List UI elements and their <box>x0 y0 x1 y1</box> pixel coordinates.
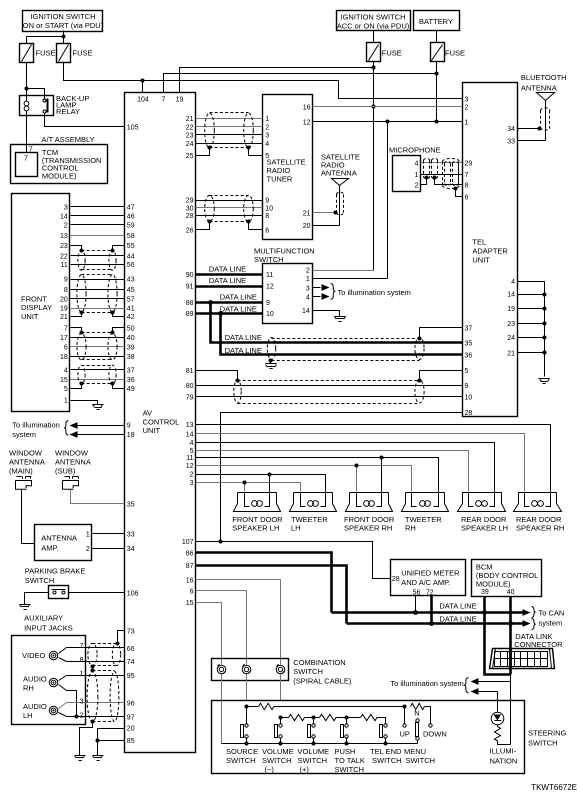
junction <box>208 300 213 305</box>
svg-text:PARKING BRAKE: PARKING BRAKE <box>25 567 86 576</box>
speaker branch verticals <box>245 466 357 493</box>
fuse F4 (BAT) <box>431 43 445 62</box>
wire mic 4 to TEL 29 <box>421 162 463 164</box>
wire FDU 14 to AV 46 <box>71 215 125 217</box>
wire tuner 12 to TEL 1 <box>313 121 463 123</box>
shield FDU group4 <box>78 365 116 384</box>
audio cable shield <box>87 671 119 722</box>
wire FDU 5 to AV 49 (shield drain) <box>71 384 125 389</box>
svg-text:12: 12 <box>266 284 274 291</box>
wire sub antenna to AV 35 <box>71 490 125 504</box>
svg-text:SWITCH: SWITCH <box>335 765 365 774</box>
svg-text:29: 29 <box>186 198 194 205</box>
svg-text:86: 86 <box>186 551 194 558</box>
MULTIFUNCTION SWITCH <box>254 246 315 323</box>
wire AV 15 to combination switch <box>196 603 222 665</box>
svg-text:1: 1 <box>86 532 90 539</box>
wire AV 28 to tuner 8 <box>196 215 263 217</box>
junction <box>141 79 145 83</box>
svg-text:RH: RH <box>405 524 416 533</box>
audio RH jack <box>49 678 58 687</box>
svg-text:106: 106 <box>127 591 139 598</box>
wire AV 79 to TEL 10 <box>196 396 463 398</box>
svg-text:8: 8 <box>265 213 269 220</box>
wire audio RH signal to AV 95 <box>59 676 125 681</box>
svg-text:2: 2 <box>306 268 310 275</box>
shield FDU group2 <box>77 275 117 313</box>
svg-text:AUDIO: AUDIO <box>23 674 47 683</box>
svg-text:36: 36 <box>127 377 135 384</box>
svg-text:28: 28 <box>392 576 400 583</box>
svg-text:1: 1 <box>265 116 269 123</box>
svg-text:1: 1 <box>306 276 310 283</box>
svg-text:SWITCH: SWITCH <box>293 667 323 676</box>
svg-text:7: 7 <box>64 326 68 333</box>
wire mic 2 to shields to TEL 8 <box>421 178 463 185</box>
svg-text:8: 8 <box>64 287 68 294</box>
svg-text:7: 7 <box>465 172 469 179</box>
wire AV 16 to combination switch <box>196 580 281 665</box>
svg-text:2: 2 <box>190 472 194 479</box>
svg-text:ILLUMI-: ILLUMI- <box>490 747 517 756</box>
wire parking brake to ground <box>25 593 49 605</box>
svg-text:36: 36 <box>465 353 473 360</box>
svg-text:87: 87 <box>186 563 194 570</box>
svg-text:25: 25 <box>186 153 194 160</box>
wire AV 14 to speakers <box>196 434 525 493</box>
svg-text:74: 74 <box>127 659 135 666</box>
svg-text:80: 80 <box>186 383 194 390</box>
svg-text:39: 39 <box>127 345 135 352</box>
svg-text:4: 4 <box>190 440 194 447</box>
svg-text:IGNITION SWITCH: IGNITION SWITCH <box>31 12 96 21</box>
svg-text:1: 1 <box>64 398 68 405</box>
wire AV 89 to MFS 10 (DATA LINE) <box>196 312 263 315</box>
svg-text:NATION: NATION <box>490 757 518 766</box>
svg-text:FUSE: FUSE <box>36 49 56 58</box>
wire from ignition switch <box>27 31 64 44</box>
svg-text:34: 34 <box>127 546 135 553</box>
svg-text:9: 9 <box>266 300 270 307</box>
wire AV 23 to tuner 3 <box>196 134 263 136</box>
svg-text:58: 58 <box>127 233 135 240</box>
svg-text:1: 1 <box>80 671 84 678</box>
svg-text:97: 97 <box>127 714 135 721</box>
wire TEL 4,14,19,23,24,21 to ground <box>518 282 545 377</box>
wire AV 85 joins ground <box>98 740 125 742</box>
ground data shield <box>266 364 277 369</box>
svg-text:95: 95 <box>127 673 135 680</box>
svg-text:35: 35 <box>127 501 135 508</box>
svg-text:6: 6 <box>465 194 469 201</box>
wire meter 56 to data line <box>415 596 417 613</box>
volume switch (+) <box>308 724 316 738</box>
SATELLITE RADIO TUNER <box>263 95 313 240</box>
svg-text:39: 39 <box>481 589 489 596</box>
svg-text:23: 23 <box>507 321 515 328</box>
wire main antenna to amp <box>22 490 35 544</box>
svg-text:56: 56 <box>127 262 135 269</box>
svg-text:To illumination: To illumination <box>12 421 60 430</box>
wire parking brake to AV 106 <box>69 592 125 594</box>
shield drain to TEL 5 <box>420 371 463 381</box>
svg-text:UNIFIED METER: UNIFIED METER <box>401 569 460 578</box>
menu rocker switch <box>416 719 420 740</box>
svg-text:SWITCH: SWITCH <box>528 739 558 748</box>
svg-text:3: 3 <box>80 699 84 706</box>
svg-text:IGNITION SWITCH: IGNITION SWITCH <box>341 13 406 22</box>
wire FDU 8 to AV 45 <box>71 289 125 291</box>
svg-text:WINDOW: WINDOW <box>9 449 43 458</box>
wire FDU 6 to AV 39 <box>71 346 125 348</box>
svg-text:35: 35 <box>465 341 473 348</box>
BLUETOOTH ANTENNA <box>521 73 567 141</box>
svg-text:9: 9 <box>127 423 131 430</box>
svg-text:6: 6 <box>64 345 68 352</box>
shield around tuner wires 2 <box>205 195 254 221</box>
UP contact <box>404 707 406 724</box>
svg-text:MODULE): MODULE) <box>42 171 77 180</box>
wire tuner 16 to TEL 2 <box>313 106 463 108</box>
IGNITION SWITCH ON or START box <box>23 11 104 32</box>
svg-text:24: 24 <box>507 335 515 342</box>
junction <box>25 87 29 91</box>
svg-text:4: 4 <box>64 368 68 375</box>
shield FDU group1 <box>78 251 116 271</box>
wire AV 81 to shield <box>196 371 238 381</box>
svg-text:SWITCH: SWITCH <box>262 756 292 765</box>
svg-text:BLUETOOTH: BLUETOOTH <box>521 73 567 82</box>
wire to illumination arrow 2 / bulb <box>478 692 498 712</box>
wire AV 20 to ground <box>98 729 125 756</box>
svg-text:8: 8 <box>80 657 84 664</box>
svg-text:SPEAKER RH: SPEAKER RH <box>344 524 392 533</box>
svg-text:LH: LH <box>23 711 33 720</box>
svg-text:38: 38 <box>127 354 135 361</box>
svg-text:system: system <box>12 430 36 439</box>
svg-text:3: 3 <box>64 205 68 212</box>
wire FDU 15 to AV 36 <box>71 379 125 381</box>
speaker rear door speaker RH <box>514 493 565 533</box>
svg-text:SWITCH: SWITCH <box>254 255 284 264</box>
svg-text:SPEAKER LH: SPEAKER LH <box>232 524 279 533</box>
svg-text:45: 45 <box>127 287 135 294</box>
svg-text:37: 37 <box>465 325 473 332</box>
wire AV pin 7 to battery fuse <box>164 74 437 93</box>
speaker front door speaker LH <box>232 493 283 533</box>
wire AV pin 19 to ACC fuse <box>180 68 374 93</box>
svg-text:DATA LINE: DATA LINE <box>220 304 257 313</box>
DOWN contact <box>429 724 432 727</box>
wire AV 12 to speakers <box>196 466 412 493</box>
svg-text:(+): (+) <box>300 765 310 774</box>
wire AV 80 to TEL 9 <box>196 385 463 387</box>
svg-text:11: 11 <box>61 262 68 269</box>
wires combination switch into steering switch <box>221 675 223 744</box>
svg-text:18: 18 <box>60 354 68 361</box>
wire FDU 7 to AV 50 (shield drain) <box>71 328 125 333</box>
wire FDU 1 to ground <box>71 401 98 405</box>
illumination bulb <box>491 712 504 725</box>
svg-text:73: 73 <box>127 629 135 636</box>
svg-text:90: 90 <box>186 272 194 279</box>
svg-text:RH: RH <box>23 683 34 692</box>
video jack <box>49 651 58 660</box>
shield around tuner wires <box>205 113 254 149</box>
svg-text:To illumination system: To illumination system <box>390 679 463 688</box>
wire audio LH signal to AV 96 <box>59 703 125 709</box>
svg-text:ANTENNA: ANTENNA <box>55 458 91 467</box>
svg-text:CONNECTOR: CONNECTOR <box>514 640 563 649</box>
FRONT DISPLAY UNIT <box>12 194 70 412</box>
svg-text:INPUT JACKS: INPUT JACKS <box>24 624 73 633</box>
wire amp 2 to AV 34 <box>93 548 125 550</box>
audio shield drain to ground <box>80 722 93 756</box>
svg-text:2: 2 <box>465 105 469 112</box>
svg-text:9: 9 <box>64 277 68 284</box>
shield around data lines <box>267 338 424 361</box>
svg-text:ANTENNA: ANTENNA <box>9 458 45 467</box>
spiral cable connector <box>276 664 285 674</box>
svg-text:91: 91 <box>186 284 194 291</box>
svg-text:SWITCH: SWITCH <box>298 756 328 765</box>
svg-text:5: 5 <box>64 386 68 393</box>
wire FDU 2 to AV 59 <box>71 224 125 226</box>
wire FDU 17 to AV 40 <box>71 337 125 339</box>
resistor to DOWN <box>411 703 425 709</box>
svg-text:30: 30 <box>186 205 194 212</box>
svg-text:47: 47 <box>127 205 135 212</box>
svg-text:STEERING: STEERING <box>528 729 567 738</box>
steering bus 2 <box>281 717 289 719</box>
svg-text:FUSE: FUSE <box>445 49 465 58</box>
wire BCM 40 through connector <box>509 649 512 669</box>
svg-text:21: 21 <box>303 211 311 218</box>
speaker tweeter RH <box>402 493 449 533</box>
wire fuse F1 to relay <box>27 63 45 101</box>
svg-text:SWITCH: SWITCH <box>226 756 256 765</box>
STEERING SWITCH box <box>212 701 525 774</box>
svg-text:2: 2 <box>415 183 419 190</box>
wire AV 2 to speakers <box>196 475 326 493</box>
wire AV 11 to speakers <box>196 458 439 493</box>
ground TEL <box>539 379 550 384</box>
svg-text:RELAY: RELAY <box>56 107 80 116</box>
svg-text:system: system <box>539 618 563 627</box>
wire meter 72 to data line <box>430 596 433 624</box>
svg-text:FUSE: FUSE <box>73 49 93 58</box>
svg-text:AUXILIARY: AUXILIARY <box>24 614 63 623</box>
data link connector <box>490 649 555 669</box>
window antenna MAIN symbol <box>16 477 32 490</box>
svg-text:VOLUME: VOLUME <box>298 747 330 756</box>
svg-text:79: 79 <box>186 394 194 401</box>
wire FDU 13 to AV 58 <box>71 235 125 237</box>
speaker front door speaker RH <box>344 493 395 533</box>
svg-text:3: 3 <box>465 97 469 104</box>
wire FDU 21 to AV 42 (shield drain) <box>71 313 125 317</box>
ground MFS <box>335 317 346 322</box>
steering bus 1 <box>247 706 259 708</box>
wire big shield to TEL 6 <box>456 189 463 197</box>
svg-text:20: 20 <box>303 223 311 230</box>
svg-text:1: 1 <box>465 119 469 126</box>
window antenna SUB symbol <box>63 477 79 490</box>
wire TEL 34 to antenna shield <box>518 128 539 130</box>
svg-text:DATA LINE: DATA LINE <box>209 276 246 285</box>
svg-text:14: 14 <box>302 308 310 315</box>
svg-text:CONTROL: CONTROL <box>143 417 180 426</box>
svg-text:40: 40 <box>507 589 515 596</box>
wire MFS 1 to battery feed <box>313 278 388 280</box>
svg-text:VIDEO: VIDEO <box>22 651 46 660</box>
svg-text:16: 16 <box>186 577 194 584</box>
ACC feed vertical to multifunction switch pin 2 <box>373 62 375 271</box>
svg-text:BATTERY: BATTERY <box>419 17 453 26</box>
svg-text:3: 3 <box>265 133 269 140</box>
svg-text:5: 5 <box>465 368 469 375</box>
wire AV 9 to illumination <box>77 425 125 427</box>
svg-text:29: 29 <box>465 160 473 167</box>
svg-text:MODULE): MODULE) <box>476 579 511 588</box>
wire AV 107 branch to TEL 28 <box>221 413 463 542</box>
wire tuner 20 to antenna <box>313 225 340 227</box>
svg-text:42: 42 <box>127 314 135 321</box>
wire AV 3 to speakers <box>196 483 301 493</box>
svg-text:59: 59 <box>127 222 135 229</box>
svg-text:20: 20 <box>127 726 135 733</box>
wire fuse F2 / AV pin 104 to TEL pin 3 <box>64 62 463 99</box>
BCM (BODY CONTROL MODULE) <box>472 560 542 597</box>
svg-text:107: 107 <box>182 539 194 546</box>
wire AV 87 (DATA LINE) <box>196 566 347 624</box>
svg-text:SPEAKER RH: SPEAKER RH <box>516 524 564 533</box>
svg-text:DATA LINE: DATA LINE <box>439 601 476 610</box>
svg-text:DOWN: DOWN <box>423 730 447 739</box>
svg-text:33: 33 <box>127 532 135 539</box>
svg-text:TKWT6672E: TKWT6672E <box>531 783 577 792</box>
wire AV 86 (DATA LINE) <box>196 553 332 613</box>
wire AV 6 to combination switch <box>196 591 247 665</box>
svg-text:SWITCH: SWITCH <box>25 576 55 585</box>
svg-text:4: 4 <box>306 295 310 302</box>
wire BCM 39 (CAN) <box>485 597 511 675</box>
wire audio RH shell down to 97 <box>59 685 77 717</box>
ground aux shield <box>75 756 86 761</box>
svg-text:57: 57 <box>127 297 135 304</box>
wire relay to AV pin 105 <box>45 113 125 127</box>
svg-text:UNIT: UNIT <box>143 426 161 435</box>
back-up lamp relay <box>20 94 90 116</box>
svg-text:N: N <box>414 709 419 718</box>
svg-text:28: 28 <box>186 213 194 220</box>
svg-text:96: 96 <box>127 701 135 708</box>
svg-text:72: 72 <box>426 589 434 596</box>
svg-text:6: 6 <box>265 228 269 235</box>
svg-text:DATA LINE: DATA LINE <box>439 614 476 623</box>
TCM (transmission control module) <box>16 147 102 181</box>
wire AV 21 to tuner 1 <box>196 118 263 120</box>
tel end switch <box>380 724 388 738</box>
BATTERY box <box>414 11 460 31</box>
svg-text:ANTENNA: ANTENNA <box>41 534 77 543</box>
svg-text:11: 11 <box>186 455 193 462</box>
svg-text:4: 4 <box>265 141 269 148</box>
wire AV 24 to tuner 4 <box>196 143 263 145</box>
wire mic 1 to TEL 7 <box>421 174 463 176</box>
svg-text:2: 2 <box>86 546 90 553</box>
wire FDU 9 to AV 43 <box>71 279 125 281</box>
svg-text:(MAIN): (MAIN) <box>9 467 33 476</box>
svg-text:PUSH: PUSH <box>335 747 356 756</box>
svg-text:TO TALK: TO TALK <box>335 756 365 765</box>
svg-text:89: 89 <box>186 311 194 318</box>
svg-text:15: 15 <box>60 377 68 384</box>
svg-text:37: 37 <box>127 368 135 375</box>
svg-text:85: 85 <box>127 738 135 745</box>
svg-text:18: 18 <box>127 432 135 439</box>
svg-text:7: 7 <box>24 156 28 163</box>
COMBINATION SWITCH (SPIRAL CABLE) <box>212 658 352 685</box>
junction <box>62 35 66 39</box>
audio LH jack <box>49 706 58 715</box>
svg-text:MENU: MENU <box>404 747 426 756</box>
svg-text:2: 2 <box>80 712 84 719</box>
wire video signal to AV 66 <box>59 648 125 654</box>
wire AV 30 to tuner 10 <box>196 207 263 209</box>
svg-text:33: 33 <box>507 138 515 145</box>
mic shield capsules <box>424 159 460 189</box>
svg-text:AND A/C AMP.: AND A/C AMP. <box>401 578 450 587</box>
wire AV 22 to tuner 2 <box>196 126 263 128</box>
svg-text:AV: AV <box>143 409 152 418</box>
ANTENNA AMP <box>35 525 92 561</box>
svg-text:44: 44 <box>127 253 135 260</box>
UNIFIED METER AND A/C AMP <box>391 560 466 597</box>
video shield to audio shield link <box>92 666 94 671</box>
spiral cable connector <box>242 664 251 674</box>
svg-text:3: 3 <box>306 285 310 292</box>
svg-text:UNIT: UNIT <box>21 312 39 321</box>
svg-text:9: 9 <box>265 198 269 205</box>
svg-text:A/T ASSEMBLY: A/T ASSEMBLY <box>42 135 95 144</box>
switch feed verticals <box>247 707 347 725</box>
wire BCM 40 (CAN) <box>509 597 512 675</box>
svg-text:49: 49 <box>127 386 135 393</box>
wire video shield to AV 74 <box>59 658 125 662</box>
svg-text:TUNER: TUNER <box>267 175 293 184</box>
shield around 80/79 <box>234 380 424 404</box>
junction <box>218 311 223 316</box>
wire BATTERY to fuse <box>436 31 438 43</box>
svg-text:(SPIRAL CABLE): (SPIRAL CABLE) <box>293 676 352 685</box>
svg-text:24: 24 <box>186 141 194 148</box>
junction <box>386 120 390 124</box>
wire FDU 23 to AV 55 (shield drain) <box>71 246 125 251</box>
wire AV 91 to MFS 12 (DATA LINE) <box>196 285 263 288</box>
DATA LINE AV 89 branch to TEL 36 <box>221 314 463 355</box>
shield FDU group3 <box>77 333 117 360</box>
svg-text:WINDOW: WINDOW <box>55 449 89 458</box>
svg-text:105: 105 <box>127 125 139 132</box>
svg-text:To illumination system: To illumination system <box>338 288 411 297</box>
svg-text:UNIT: UNIT <box>472 256 490 265</box>
ground parking brake <box>20 605 31 610</box>
svg-text:50: 50 <box>127 326 135 333</box>
svg-text:55: 55 <box>127 243 135 250</box>
SATELLITE RADIO ANTENNA <box>321 153 360 226</box>
wire MFS 3 to illumination <box>313 287 321 289</box>
